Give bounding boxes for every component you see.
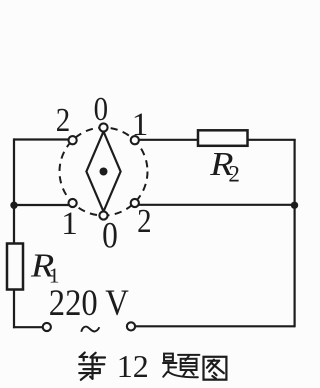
node label 2 top-left bbox=[56, 101, 70, 139]
switch terminal 2 bottom-right bbox=[131, 199, 139, 207]
switch terminal 0 top bbox=[99, 123, 107, 131]
wire: top-left horizontal from left rail to switch terminal 2 bbox=[14, 138, 69, 140]
svg-text:1: 1 bbox=[61, 206, 78, 242]
svg-text:12: 12 bbox=[117, 348, 149, 384]
wire: mid-left horizontal from left rail to switch terminal 1 bbox=[14, 204, 69, 206]
switch terminal 2 top-left bbox=[69, 136, 77, 144]
rotary switch center dot bbox=[100, 168, 108, 176]
resistor R1 bbox=[7, 244, 23, 290]
svg-text:2: 2 bbox=[228, 162, 240, 187]
AC source terminal left bbox=[43, 323, 51, 331]
wire: bottom-left horizontal to AC terminal bbox=[13, 326, 43, 328]
wire: from R2 to right rail bbox=[248, 139, 296, 141]
label R1 bbox=[30, 246, 54, 284]
switch terminal 1 bottom-left bbox=[69, 199, 77, 207]
label R2 bbox=[209, 145, 233, 183]
switch terminal 0 bottom bbox=[99, 211, 107, 219]
svg-text:0: 0 bbox=[94, 90, 108, 128]
svg-text:1: 1 bbox=[132, 107, 149, 143]
caption character 题 bbox=[163, 354, 199, 378]
caption character 图 bbox=[204, 357, 227, 380]
junction left node bbox=[10, 202, 17, 209]
rotary switch wiper diamond bbox=[86, 132, 120, 212]
svg-text:220 V: 220 V bbox=[49, 283, 129, 324]
node label 2 bottom-right bbox=[137, 202, 151, 240]
wire: left vertical rail lower (R1 bottom to bottom corner) bbox=[13, 289, 15, 328]
svg-text:0: 0 bbox=[102, 215, 118, 256]
resistor R2 bbox=[198, 130, 248, 146]
svg-text:2: 2 bbox=[56, 101, 70, 139]
switch terminal 1 top-right bbox=[131, 136, 139, 144]
node label 0 top bbox=[94, 90, 108, 128]
AC source terminal right bbox=[127, 322, 135, 330]
wire: bottom horizontal from AC terminal to right rail bbox=[135, 325, 295, 327]
rotary switch dashed circle bbox=[60, 128, 148, 216]
wire: left vertical rail upper (corner to R1 top) bbox=[13, 138, 15, 244]
wire: right vertical rail bbox=[294, 140, 296, 328]
junction right node bbox=[291, 202, 298, 209]
wire: mid-right horizontal from switch terminal 2 to right rail bbox=[139, 204, 295, 206]
svg-text:2: 2 bbox=[137, 202, 151, 240]
AC sine symbol ~ bbox=[81, 327, 99, 332]
caption character 第 bbox=[79, 353, 105, 380]
wire: top-right horizontal from switch terminal 1 to R2 bbox=[139, 139, 198, 141]
node label 0 bottom bbox=[102, 215, 118, 256]
